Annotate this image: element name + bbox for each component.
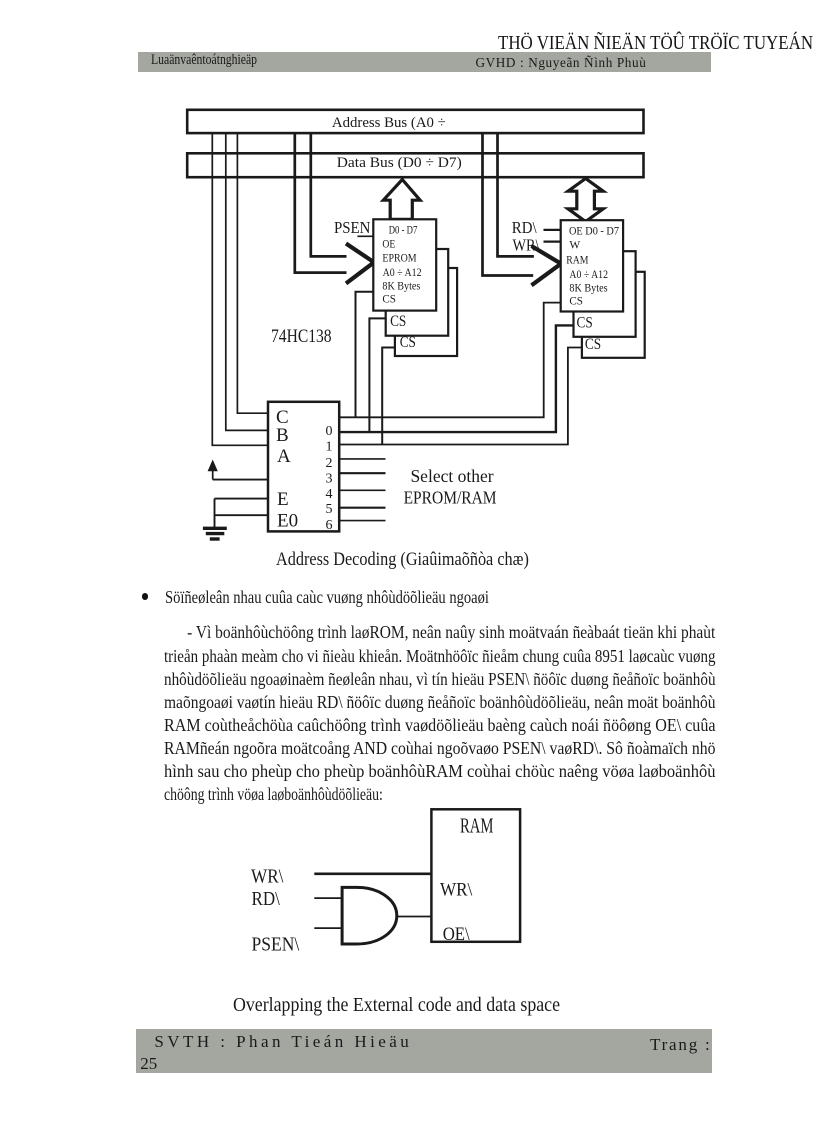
wire AND gate to RAM OE [397, 916, 432, 918]
svg-text:RD\: RD\ [512, 218, 537, 237]
svg-text:EPROM/RAM: EPROM/RAM [404, 488, 497, 508]
net decoder output 2 to EPROM/RAM CS3 [339, 348, 582, 445]
svg-text:2: 2 [326, 456, 333, 471]
svg-text:RAM: RAM [566, 255, 588, 267]
svg-text:A0 ÷ A12: A0 ÷ A12 [383, 267, 422, 279]
wire address bus to EPROM (lower) [295, 133, 347, 273]
wire WR to RAM W [544, 241, 561, 243]
svg-text:CS: CS [585, 336, 601, 353]
svg-text:CS: CS [382, 294, 396, 306]
svg-text:D0 - D7: D0 - D7 [389, 225, 418, 237]
svg-text:W: W [569, 239, 580, 251]
wire decoder E0 to ground [215, 514, 269, 516]
wire EPROM middle CS to decoder line 1 [369, 318, 385, 432]
hollow double arrow data bus to RAM [568, 179, 603, 222]
svg-text:B: B [276, 425, 289, 446]
svg-text:OE D0 - D7: OE D0 - D7 [569, 226, 619, 238]
address chevron arrow into EPROM [346, 244, 374, 284]
svg-text:CS: CS [400, 334, 416, 351]
svg-text:6: 6 [326, 518, 333, 533]
wire decoder output stub 2 [339, 458, 385, 460]
address chevron arrow into RAM [532, 246, 562, 285]
wire A1 (address bus to decoder B) [226, 133, 267, 430]
address bus [187, 110, 643, 133]
wire PSEN to AND gate [314, 927, 342, 929]
wire decoder output stub 4 [339, 489, 385, 491]
svg-text:8K Bytes: 8K Bytes [382, 281, 420, 293]
svg-text:PSEN\: PSEN\ [252, 934, 300, 956]
hollow arrow data bus to EPROM [383, 180, 420, 220]
RAM box (overlap schematic) [431, 809, 520, 945]
svg-text:4: 4 [326, 487, 333, 502]
svg-text:CS: CS [390, 313, 406, 330]
svg-text:74HC138: 74HC138 [271, 327, 332, 347]
wire address bus to RAM (lower) [483, 133, 534, 276]
+V supply arrow [208, 460, 218, 480]
svg-text:Address Bus (A0 ÷: Address Bus (A0 ÷ [332, 114, 446, 131]
svg-text:A: A [277, 446, 291, 467]
EPROM chip U2 front box [373, 219, 436, 310]
svg-text:WR\: WR\ [513, 236, 540, 255]
svg-text:CS: CS [569, 295, 583, 307]
svg-text:0: 0 [326, 424, 333, 439]
wire decoder output stub 3 [339, 472, 385, 474]
wire WR to RAM WR [314, 872, 431, 875]
wire decoder E to ground [215, 498, 269, 500]
wire RD to AND gate [314, 897, 342, 899]
decoder U1 74HC138 box [268, 402, 339, 533]
RAM chip back box with CS pin [582, 272, 645, 358]
wire EPROM front CS to decoder line 0 [356, 292, 374, 418]
svg-text:5: 5 [326, 502, 333, 517]
svg-text:Select other: Select other [410, 466, 493, 486]
EPROM chip back box with CS pin [395, 268, 457, 356]
svg-text:PSEN: PSEN [334, 218, 370, 237]
RAM chip U3 front box [561, 220, 623, 311]
RAM chip middle box with CS pin [574, 251, 636, 337]
net decoder output 0 to EPROM/RAM CS1 [339, 303, 561, 418]
wire decoder output stub 5 [339, 507, 385, 509]
svg-text:CS: CS [577, 315, 593, 332]
EPROM chip middle box with CS pin [386, 249, 449, 336]
wire decoder output stub 6 [339, 520, 385, 522]
svg-text:3: 3 [326, 472, 333, 487]
wire address bus to EPROM (upper) [311, 133, 347, 256]
svg-text:EPROM: EPROM [382, 253, 416, 265]
svg-text:RAM: RAM [460, 814, 494, 838]
wire PSEN to EPROM OE [357, 235, 373, 237]
svg-text:WR\: WR\ [440, 880, 473, 901]
svg-text:RD\: RD\ [252, 888, 281, 910]
svg-text:WR\: WR\ [251, 866, 284, 888]
wire supply to decoder enable [213, 479, 268, 481]
wire A2 (address bus to decoder C) [237, 133, 267, 413]
ground [203, 499, 227, 539]
svg-text:E0: E0 [277, 511, 298, 532]
svg-text:OE: OE [382, 239, 395, 251]
label select other EPROM/RAM [404, 466, 497, 508]
net decoder output 1 to EPROM/RAM CS2 [339, 325, 573, 432]
svg-text:E: E [277, 489, 289, 510]
AND gate [342, 887, 397, 944]
svg-text:1: 1 [326, 440, 333, 455]
wire A0 (address bus to decoder A) [212, 133, 267, 445]
svg-text:Data Bus (D0 ÷ D7): Data Bus (D0 ÷ D7) [337, 154, 462, 171]
wire RD to RAM OE [544, 229, 561, 231]
wire address bus to RAM (upper) [498, 133, 534, 256]
wire EPROM back CS to decoder line 2 [382, 348, 395, 445]
svg-text:OE\: OE\ [443, 924, 471, 945]
data bus [187, 153, 643, 177]
svg-text:8K Bytes: 8K Bytes [569, 283, 608, 295]
svg-text:A0 ÷ A12: A0 ÷ A12 [569, 269, 608, 281]
